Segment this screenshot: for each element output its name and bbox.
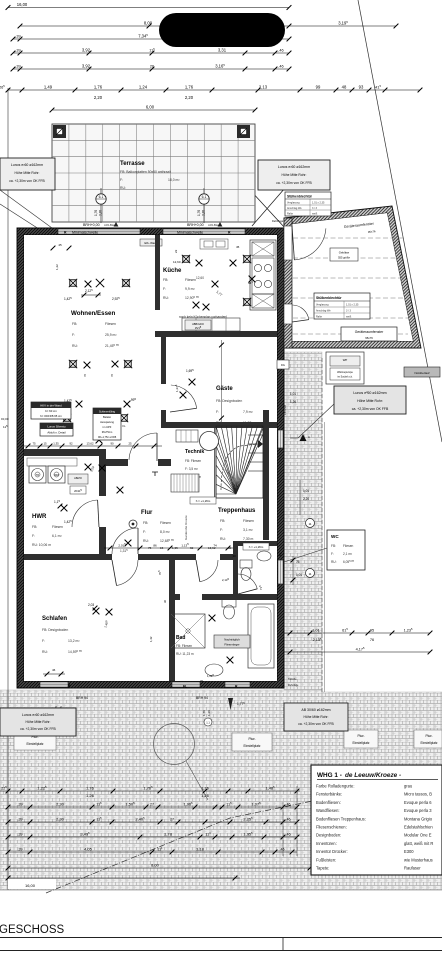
dashed site boundary bottom (46, 788, 442, 893)
Stülkenblechtür table top (285, 192, 331, 216)
svg-text:8,00: 8,00 (151, 862, 160, 867)
svg-text:11,37 m: 11,37 m (243, 421, 255, 425)
svg-text:Bodenfliesen:: Bodenfliesen: (316, 800, 341, 805)
wall Küche south (155, 331, 277, 337)
svg-text:1,78: 1,78 (164, 831, 173, 836)
svg-text:Fliesenleger: Fliesenleger (224, 643, 239, 647)
svg-text:Aussparung: Aussparung (100, 420, 114, 424)
svg-text:TR: TR (36, 474, 39, 477)
svg-text:,46: ,46 (286, 802, 291, 806)
svg-text:Montana Grigio: Montana Grigio (404, 816, 433, 821)
svg-text:6.1: 6.1 (202, 195, 207, 199)
wall HWR|Flur (99, 449, 106, 554)
svg-text:7,9 m²: 7,9 m² (243, 410, 253, 414)
svg-text:FB: Fliesen: FB: Fliesen (176, 644, 192, 648)
svg-text:Stülkenblechtür: Stülkenblechtür (316, 296, 342, 300)
Technik manifold (176, 430, 198, 442)
Notüberlauf label (404, 367, 440, 377)
svg-text:Tiförche: Tiförche (288, 678, 297, 681)
paved strip east of building (284, 352, 322, 690)
svg-text:F:: F: (163, 287, 166, 291)
svg-text:F:: F: (120, 178, 123, 182)
left property boundary line (7, 88, 9, 890)
dashed utility line east of building (321, 358, 323, 692)
dim line b4 (8, 836, 297, 838)
svg-text:HKV in der Wand: HKV in der Wand (40, 404, 62, 408)
svg-text:6,1 m²: 6,1 m² (52, 534, 62, 538)
wall HWR north extension (99, 449, 106, 466)
dimension line 6,00 terrace (52, 109, 255, 111)
svg-text:RU:: RU: (220, 537, 226, 541)
footpath diagonal 2 top-left (0, 204, 42, 231)
svg-text:Innentüren:: Innentüren: (316, 841, 337, 846)
svg-text:Flur: Flur (141, 510, 153, 516)
svg-text:1,01 x 2,35: 1,01 x 2,35 (312, 202, 325, 205)
svg-text:Terrasse: Terrasse (120, 161, 145, 167)
svg-text:45: 45 (58, 243, 62, 247)
circled 11 marker b (306, 569, 315, 578)
svg-text:im UPF: im UPF (103, 425, 112, 429)
terrace column marker left (53, 125, 66, 138)
svg-text:3 / 3: 3 / 3 (346, 310, 351, 313)
svg-text:76: 76 (296, 560, 300, 564)
svg-text:Minimalschwelle: Minimalschwelle (72, 231, 98, 235)
dim line b2 (8, 806, 297, 808)
svg-text:36x75cm: 36x75cm (102, 430, 113, 434)
svg-text:16,00: 16,00 (17, 2, 28, 7)
south window Schlafen (40, 682, 68, 687)
svg-text:95x76: 95x76 (365, 336, 373, 340)
kitchen passage gap (155, 310, 160, 331)
svg-text:Treppenhaus: Treppenhaus (218, 508, 256, 514)
svg-text:2,20: 2,20 (94, 95, 103, 100)
WC callout box (327, 530, 365, 570)
svg-text:1,42: 1,42 (149, 636, 153, 642)
door Bad (200, 560, 218, 582)
svg-text:Pkw-: Pkw- (248, 737, 255, 741)
door opening HWR (99, 496, 106, 527)
svg-text:Evoque perla 6: Evoque perla 6 (404, 800, 432, 805)
svg-text:Rafte: Rafte (316, 316, 323, 319)
terrace door symbol 6.1 right (203, 188, 205, 223)
svg-text:1,01: 1,01 (303, 489, 309, 493)
dim line b3 (8, 821, 297, 823)
svg-text:RU:: RU: (143, 539, 149, 543)
svg-text:Lunos e²60 ø162mm: Lunos e²60 ø162mm (278, 165, 310, 169)
svg-text:2,13: 2,13 (259, 84, 268, 89)
dim line right 2,13 (284, 632, 430, 634)
svg-text:h= OKFFB 65 cm: h= OKFFB 65 cm (40, 414, 62, 418)
label 16,00 bottom (8, 879, 56, 889)
wall Gäste south (161, 422, 277, 428)
svg-text:3,31: 3,31 (218, 47, 227, 52)
svg-text:4,05: 4,05 (84, 846, 93, 851)
svg-text:BRH 94: BRH 94 (76, 696, 88, 700)
svg-text:36: 36 (163, 599, 167, 603)
svg-text:48: 48 (342, 84, 347, 89)
svg-text:,46: ,46 (278, 64, 283, 68)
svg-text:1,49: 1,49 (44, 84, 53, 89)
brace cross NE of terrace (250, 190, 285, 228)
kitchen sink top (200, 239, 228, 249)
terrace column marker right (237, 125, 250, 138)
svg-text:Einstellplatz: Einstellplatz (352, 741, 369, 745)
wall Flur|Schlafen (24, 554, 233, 560)
svg-text:OK+1,75m v.FFB: OK+1,75m v.FFB (98, 436, 117, 439)
svg-text:1,35: 1,35 (53, 441, 59, 445)
slanted property boundary north-east (358, 0, 442, 442)
svg-text:8,0 m²: 8,0 m² (160, 530, 170, 534)
door opening Bad north (180, 594, 202, 600)
HWR washing machine (29, 466, 46, 483)
svg-text:3,18: 3,18 (196, 846, 205, 851)
terrace tiled floor (52, 124, 255, 222)
electrical symbols Küche (183, 256, 189, 262)
svg-text:Abluft n. Detail: Abluft n. Detail (47, 431, 66, 435)
svg-text:Verglasung: Verglasung (287, 202, 300, 205)
svg-text:h = +1,26m: h = +1,26m (249, 545, 264, 549)
svg-text:Verglasung: Verglasung (316, 304, 329, 307)
Technik|Treppenhaus partition (214, 428, 216, 497)
svg-text:1,76: 1,76 (94, 84, 103, 89)
WC leader line (284, 548, 327, 562)
svg-text:F:: F: (216, 410, 219, 414)
svg-text:BRH 94: BRH 94 (196, 696, 208, 700)
svg-text:wie Musterhaus: wie Musterhaus (404, 857, 433, 862)
wall WC west (233, 545, 238, 594)
shed dashed roof lines (293, 238, 408, 334)
svg-text:Schlafen: Schlafen (42, 616, 67, 622)
crosshatch wall chunk NE (250, 233, 284, 247)
svg-text:Lunos e²60 ø162mm: Lunos e²60 ø162mm (353, 391, 386, 395)
svg-text:,46: ,46 (280, 847, 285, 851)
dimension line 16,00 (8, 7, 289, 9)
door Gäste (171, 385, 197, 408)
svg-text:FL: FL (183, 685, 187, 689)
tree leader (186, 761, 208, 800)
svg-text:ca. +2,30m von OK FFB: ca. +2,30m von OK FFB (20, 727, 56, 731)
dim line b7 (8, 877, 240, 879)
svg-text:13,62: 13,62 (87, 441, 94, 445)
svg-text:Modular One E: Modular One E (404, 833, 432, 838)
svg-text:WC: WC (331, 534, 339, 539)
Nachtrisch Fliesenleger note (214, 635, 250, 648)
svg-text:2,1 m²: 2,1 m² (343, 552, 352, 556)
svg-text:12,60: 12,60 (173, 260, 181, 264)
terrace door opening west (58, 229, 140, 234)
svg-text:Technik: Technik (185, 449, 204, 455)
electrical symbols Flur (117, 487, 124, 494)
svg-text:1,76: 1,76 (94, 210, 98, 216)
svg-text:1,01: 1,01 (290, 392, 296, 396)
svg-text:±0,00: ±0,00 (1, 417, 9, 421)
svg-text:Lunos Silvento: Lunos Silvento (47, 425, 66, 429)
Elt-Wand box (140, 239, 162, 246)
svg-text:BRH+0,00: BRH+0,00 (83, 223, 100, 227)
Lunos Silvento box (40, 423, 73, 436)
wall Wohnen|Küche (155, 235, 160, 310)
svg-text:2,03: 2,03 (88, 603, 94, 607)
svg-text:90: 90 (110, 441, 114, 445)
svg-text:1,01: 1,01 (296, 573, 302, 577)
svg-text:Fußleisten:: Fußleisten: (316, 857, 336, 862)
dimension line 8,00 / 3,19 (20, 25, 396, 27)
svg-text:WM: WM (54, 474, 58, 477)
dimension line 1,49 1,76 1,24 row (8, 89, 420, 91)
herringbone bottom border (0, 889, 442, 891)
door Wohnen-Flur (129, 433, 157, 460)
kitchen hob (252, 258, 274, 294)
svg-text:25: 25 (128, 441, 132, 445)
svg-text:,39: ,39 (15, 64, 20, 68)
Bad shower (171, 614, 205, 648)
svg-text:F:: F: (220, 528, 223, 532)
svg-text:2,20: 2,20 (99, 210, 103, 216)
svg-text:2,30: 2,30 (56, 816, 65, 821)
svg-text:Fliesenschienen:: Fliesenschienen: (316, 825, 347, 830)
svg-text:16,00: 16,00 (25, 883, 36, 888)
svg-text:BRH+0,00: BRH+0,00 (187, 223, 204, 227)
Lunos callout right top (258, 160, 330, 190)
svg-text:13,2 m²: 13,2 m² (68, 639, 80, 643)
svg-text:11: 11 (308, 522, 311, 526)
door opening Schlafen (112, 554, 138, 560)
tree circle (154, 724, 195, 765)
HKV box (31, 402, 71, 419)
svg-text:76: 76 (370, 638, 374, 642)
hydrant symbol (228, 698, 233, 710)
svg-text:F:: F: (143, 530, 146, 534)
Gebläse box (330, 248, 358, 261)
svg-text:h = +1,26m: h = +1,26m (196, 499, 211, 503)
dim row flur2 (104, 547, 233, 549)
svg-text:Höhe Mitte Rohr:: Höhe Mitte Rohr: (15, 171, 40, 175)
svg-text:,39: ,39 (18, 802, 23, 806)
svg-text:Nachträglich: Nachträglich (224, 638, 240, 642)
dimension line 3,92/3,31 (13, 52, 289, 54)
door main entrance (Flur from east) (112, 528, 138, 554)
svg-text:1,76: 1,76 (185, 84, 194, 89)
svg-text:Einstellplatz: Einstellplatz (420, 741, 437, 745)
door opening Bad hall (196, 554, 220, 560)
electrical symbols Wohnen (70, 280, 76, 286)
svg-text:92: 92 (69, 441, 73, 445)
Geräteraumfenster box bottom (341, 327, 397, 341)
paved ground bottom field (0, 690, 322, 890)
shed interior (284, 213, 413, 341)
shed west wall (284, 218, 292, 348)
Lunos callout mid-right (334, 386, 406, 414)
svg-text:555 größe: 555 größe (338, 256, 350, 260)
dim row flur (24, 445, 162, 447)
svg-text:27: 27 (150, 802, 154, 806)
svg-text:,39: ,39 (15, 34, 20, 38)
door Schlafen (117, 560, 139, 586)
kitchen appliance top (252, 242, 274, 256)
svg-text:,90: ,90 (232, 554, 236, 558)
svg-text:1,76: 1,76 (202, 710, 206, 716)
svg-text:27: 27 (170, 817, 174, 821)
svg-text:1,26: 1,26 (207, 710, 211, 716)
svg-text:25,9 m²: 25,9 m² (105, 333, 117, 337)
svg-text:Edelstahlschien: Edelstahlschien (404, 825, 433, 830)
svg-text:Höhe Mitte Rohr:: Höhe Mitte Rohr: (357, 399, 383, 403)
svg-text:Höhe Mitte Rohr:: Höhe Mitte Rohr: (26, 720, 51, 724)
svg-text:11: 11 (308, 572, 311, 576)
svg-text:1,76: 1,76 (197, 210, 201, 216)
svg-text:Anschlag We: Anschlag We (287, 207, 302, 210)
svg-text:weiß: weiß (346, 316, 352, 319)
circled 11 marker a (306, 519, 315, 528)
terrace door symbol 6.1 left (100, 188, 102, 223)
wall Bad north (175, 594, 277, 600)
svg-text:WHG 1 -: WHG 1 - (317, 772, 342, 779)
svg-text:RU: 10,06 m: RU: 10,06 m (32, 543, 51, 547)
dimension line 7,34 (13, 38, 289, 40)
south window Bad FL (172, 682, 200, 687)
svg-text:1,26: 1,26 (86, 793, 95, 798)
wall Gäste west (161, 337, 166, 424)
Bad toilet (222, 598, 236, 607)
svg-text:,39: ,39 (18, 817, 23, 821)
svg-text:Rafte: Rafte (287, 213, 294, 216)
door opening Gäste (161, 384, 166, 410)
svg-text:86: 86 (153, 543, 157, 547)
svg-text:FB: Balkonplatten 50x50 anthra: FB: Balkonplatten 50x50 anthrazit (120, 170, 171, 174)
svg-text:Fliesen: Fliesen (52, 525, 63, 529)
svg-text:FB:: FB: (163, 278, 168, 282)
building interior floor (24, 235, 277, 681)
svg-text:1,24: 1,24 (139, 84, 148, 89)
svg-text:RU: 11,23 m: RU: 11,23 m (176, 652, 194, 656)
svg-text:6,00: 6,00 (146, 104, 155, 109)
svg-text:Innentür Drücker:: Innentür Drücker: (316, 849, 348, 854)
svg-text:Bodenfliesen Treppenhaus:: Bodenfliesen Treppenhaus: (316, 816, 366, 821)
kitchen appliance bottom (252, 294, 274, 308)
shed outer walls (284, 206, 421, 348)
svg-text:Fliesen: Fliesen (343, 544, 354, 548)
shed door arc (294, 228, 326, 260)
svg-text:Raufaser: Raufaser (404, 866, 421, 871)
svg-text:Tapete:: Tapete: (316, 866, 329, 871)
svg-text:Beleko: Beleko (103, 415, 111, 419)
svg-text:1,01 x 2,35: 1,01 x 2,35 (346, 304, 359, 307)
door opening Flur north (128, 459, 158, 466)
svg-text:RU:: RU: (331, 560, 337, 564)
svg-text:45: 45 (236, 245, 240, 249)
svg-text:Einstellplatz: Einstellplatz (26, 742, 43, 746)
HWR AB/ZO boxes (68, 474, 88, 484)
svg-text:FB:: FB: (331, 544, 336, 548)
svg-text:FB: Designboden: FB: Designboden (42, 628, 68, 632)
electrical symbols Gäste (189, 379, 196, 386)
title underline (0, 937, 442, 939)
svg-text:RU:: RU: (72, 344, 78, 348)
treppenhaus inner wall east (263, 410, 269, 540)
svg-text:Dehnfuge: Dehnfuge (288, 684, 299, 687)
svg-text:1,26: 1,26 (201, 793, 210, 798)
svg-text:WP: WP (343, 358, 348, 362)
dim line b6 (8, 867, 330, 869)
svg-text:ca. +2,30m von OK FFB: ca. +2,30m von OK FFB (9, 179, 45, 183)
svg-text:26: 26 (150, 64, 154, 68)
svg-text:Pkw-: Pkw- (425, 734, 432, 738)
svg-text:Einstellplatz: Einstellplatz (243, 744, 260, 748)
electrical symbols Bad (209, 615, 216, 622)
shed door arc 2 (293, 305, 309, 320)
small DG box (277, 360, 289, 369)
svg-text:F:: F: (331, 552, 334, 556)
Lunos callout bottom left (0, 708, 76, 736)
wall Flur north (106, 459, 171, 466)
svg-text:DG: DG (281, 363, 285, 367)
svg-text:93: 93 (359, 84, 364, 89)
svg-text:2,20: 2,20 (303, 497, 309, 501)
svg-text:FB:: FB: (220, 519, 225, 523)
Pkw plate right b (414, 730, 442, 748)
Bad washbasin (205, 664, 223, 676)
svg-text:FB:: FB: (143, 521, 148, 525)
svg-text:3 / 3: 3 / 3 (312, 207, 317, 210)
Gäste vertical dim line (221, 340, 223, 422)
title block line (0, 950, 442, 952)
svg-text:6.1: 6.1 (99, 195, 104, 199)
svg-text:AB 30/60 ø162mm: AB 30/60 ø162mm (301, 708, 330, 712)
svg-text:glatt, weiß mit R: glatt, weiß mit R (404, 841, 433, 846)
svg-text:Notüberlauf: Notüberlauf (415, 371, 430, 375)
shed door opening west 2 (284, 304, 292, 324)
svg-text:RU:: RU: (216, 421, 222, 425)
paved ground bottom right field (322, 692, 442, 890)
HWR dryer (48, 466, 65, 483)
svg-text:RU:: RU: (120, 186, 126, 190)
kitchen counter box label (185, 320, 211, 330)
svg-text:Fliesen: Fliesen (185, 278, 196, 282)
svg-text:Garderobe Kroeze: Garderobe Kroeze (184, 515, 188, 540)
svg-text:8,00: 8,00 (144, 20, 153, 25)
footpath diagonal top-left (0, 190, 52, 228)
Pkw plate mid (232, 733, 272, 751)
Wärmepumpe unit (326, 352, 364, 384)
svg-text:RU:: RU: (163, 296, 169, 300)
kitchen appliance column (250, 240, 276, 310)
svg-text:1,26: 1,26 (290, 400, 296, 404)
svg-text:2,30: 2,30 (56, 801, 65, 806)
svg-text:Lunos e²60 ø162mm: Lunos e²60 ø162mm (11, 163, 43, 167)
HWR counter (27, 458, 77, 466)
east wall window (278, 560, 283, 584)
kitchen counter south (182, 318, 240, 331)
svg-text:FB:: FB: (72, 322, 77, 326)
svg-text:Designboden:: Designboden: (316, 833, 341, 838)
door WC (238, 574, 257, 589)
wall HWR north (24, 449, 106, 456)
Schienenführung box (93, 408, 121, 440)
svg-text:3,92: 3,92 (82, 63, 91, 68)
svg-text:,46: ,46 (278, 48, 283, 52)
Stülkenblechtür table inner (314, 293, 370, 319)
dim line b5 (8, 851, 297, 853)
shed door opening west (284, 226, 292, 260)
svg-text:FB:: FB: (32, 525, 37, 529)
svg-text:Evoque perla 3: Evoque perla 3 (404, 808, 432, 813)
svg-text:,46: ,46 (286, 817, 291, 821)
svg-text:Schienenführg: Schienenführg (99, 411, 116, 414)
svg-text:15: 15 (43, 441, 47, 445)
svg-text:HWR: HWR (32, 514, 47, 520)
svg-text:Fliesen: Fliesen (243, 519, 254, 523)
AB callout bottom right (284, 703, 348, 731)
